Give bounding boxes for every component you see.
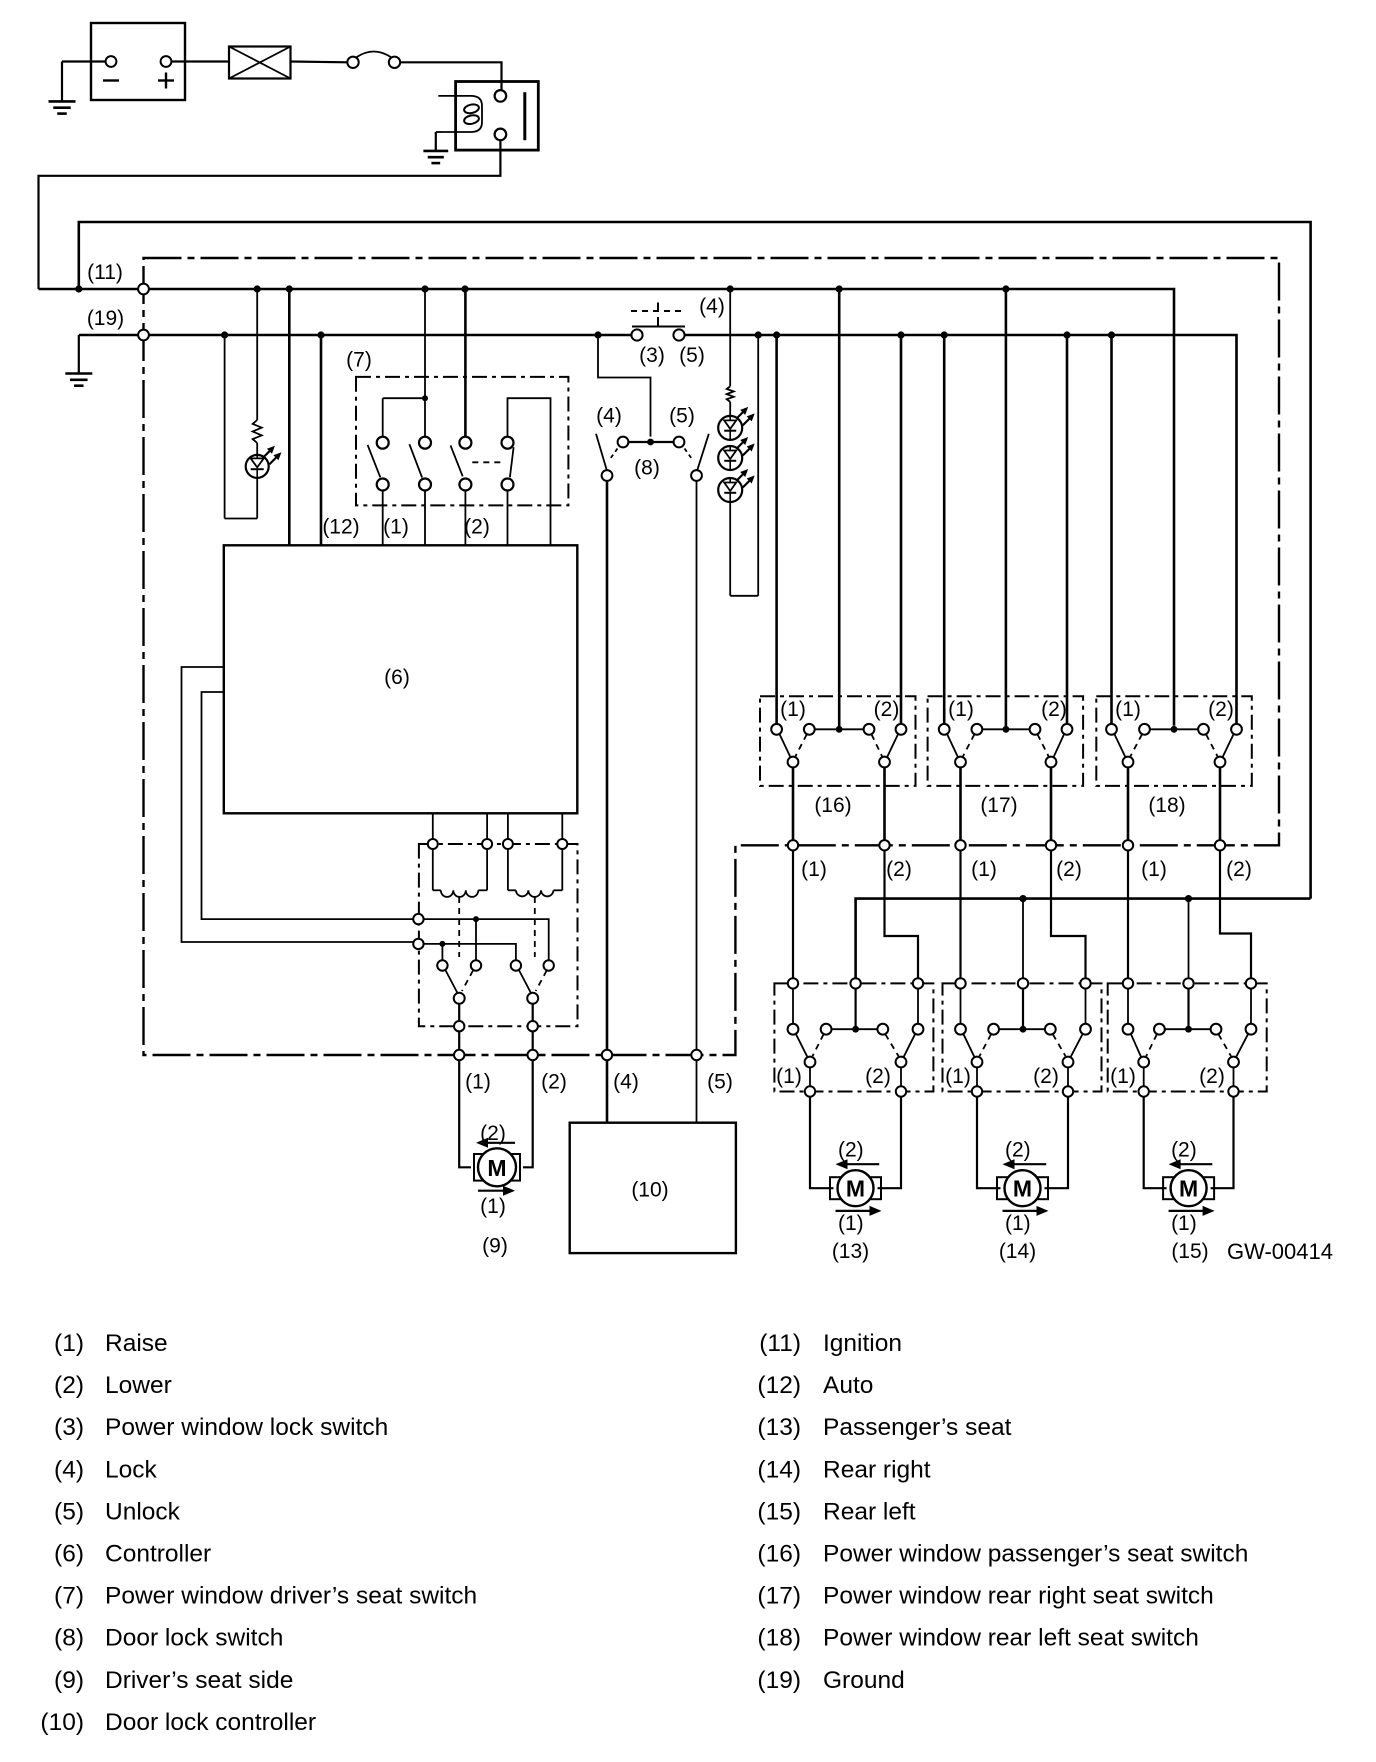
wire lock output (4) xyxy=(606,481,609,1050)
svg-text:(7): (7) xyxy=(346,349,372,372)
svg-text:GW-00414: GW-00414 xyxy=(1227,1239,1333,1264)
wire ignition feed 2 to (7) xyxy=(464,289,467,436)
svg-text:(14): (14) xyxy=(757,1456,801,1483)
svg-text:Controller: Controller xyxy=(105,1541,211,1568)
svg-text:(17): (17) xyxy=(757,1583,801,1610)
svg-text:(2): (2) xyxy=(464,516,490,539)
svg-text:(18): (18) xyxy=(1148,794,1185,817)
svg-text:Rear left: Rear left xyxy=(823,1498,916,1525)
svg-text:Unlock: Unlock xyxy=(105,1498,181,1525)
svg-text:(1): (1) xyxy=(1005,1212,1031,1235)
svg-text:(1): (1) xyxy=(480,1195,506,1218)
motor 13 xyxy=(830,1177,881,1199)
svg-text:(1): (1) xyxy=(776,1065,802,1088)
power window switch box (17) xyxy=(928,696,1084,786)
svg-text:(5): (5) xyxy=(54,1498,84,1525)
relay coil A xyxy=(432,849,434,890)
svg-text:Raise: Raise xyxy=(105,1330,168,1357)
blades xyxy=(1114,734,1125,757)
power window lock switch (3) xyxy=(631,329,642,340)
svg-text:(1): (1) xyxy=(465,1071,491,1094)
relay unit box xyxy=(419,844,578,1026)
svg-text:(15): (15) xyxy=(757,1498,801,1525)
wires door connectors to window switch xyxy=(959,851,961,979)
svg-text:(5): (5) xyxy=(679,344,705,367)
svg-text:M: M xyxy=(487,1155,506,1181)
controller (6) xyxy=(224,545,578,813)
wires ground bus to switch (17) xyxy=(943,335,946,724)
svg-text:Door lock controller: Door lock controller xyxy=(105,1709,316,1736)
bottom connectors xyxy=(805,1086,815,1096)
connector (11) on loop xyxy=(138,284,149,295)
svg-text:(4): (4) xyxy=(699,295,725,318)
svg-text:(4): (4) xyxy=(596,405,622,428)
svg-text:(12): (12) xyxy=(322,516,359,539)
node (11) ignition bus xyxy=(39,289,1175,726)
LED stack (door lock illumination) xyxy=(729,289,731,386)
wire ignition feed to (7) xyxy=(424,289,426,398)
svg-text:(2): (2) xyxy=(865,1065,891,1088)
svg-text:M: M xyxy=(846,1176,865,1202)
internal feeds xyxy=(1127,989,1129,1024)
junction dots on ground bus xyxy=(221,331,228,338)
svg-text:(19): (19) xyxy=(757,1667,801,1694)
relay linkages xyxy=(458,897,460,957)
svg-text:Auto: Auto xyxy=(823,1372,873,1399)
motor (9) driver seat xyxy=(474,1154,520,1181)
junction dots on ignition bus xyxy=(75,285,82,292)
wires controller to relay coils xyxy=(432,813,434,839)
blades xyxy=(796,1034,808,1057)
relay commons xyxy=(454,993,465,1004)
svg-text:Door lock switch: Door lock switch xyxy=(105,1625,283,1652)
wires (7) outputs to controller xyxy=(382,491,384,546)
contacts xyxy=(771,724,782,735)
ignition switch xyxy=(347,57,358,68)
svg-text:Power window driver’s seat swi: Power window driver’s seat switch xyxy=(105,1583,477,1610)
wires door connectors to window switch xyxy=(792,851,794,979)
ground (main) xyxy=(78,335,80,374)
contacts xyxy=(939,724,950,735)
svg-text:(16): (16) xyxy=(814,794,851,817)
svg-text:(2): (2) xyxy=(838,1139,864,1162)
wire raise-contact loop (7) xyxy=(508,398,551,545)
commons xyxy=(1123,757,1134,768)
svg-text:Lower: Lower xyxy=(105,1372,172,1399)
power window switch box (18) xyxy=(1096,696,1252,786)
wire ignition to controller xyxy=(288,289,291,545)
svg-text:(10): (10) xyxy=(631,1179,668,1202)
svg-text:(1): (1) xyxy=(1141,858,1167,881)
wires to motor 15 xyxy=(1144,1097,1167,1189)
svg-text:(1): (1) xyxy=(780,698,806,721)
wire ground to door lock switch xyxy=(598,335,651,437)
svg-text:(16): (16) xyxy=(757,1541,801,1568)
svg-text:Power window rear right seat s: Power window rear right seat switch xyxy=(823,1583,1214,1610)
relay contacts xyxy=(437,960,447,970)
window switch box xyxy=(774,983,933,1091)
svg-text:(2): (2) xyxy=(1056,858,1082,881)
svg-text:(13): (13) xyxy=(757,1414,801,1441)
wires commons to door connectors xyxy=(792,767,795,840)
top connectors xyxy=(955,978,965,988)
svg-text:(8): (8) xyxy=(54,1625,84,1652)
internal feeds xyxy=(960,989,962,1024)
svg-text:(1): (1) xyxy=(1171,1212,1197,1235)
svg-text:(13): (13) xyxy=(832,1240,869,1263)
ground (relay) xyxy=(436,131,444,133)
door lock controller (10) xyxy=(570,1123,736,1253)
svg-text:(3): (3) xyxy=(54,1414,84,1441)
svg-text:Power window rear left seat sw: Power window rear left seat switch xyxy=(823,1625,1199,1652)
svg-text:(12): (12) xyxy=(757,1372,801,1399)
svg-text:(17): (17) xyxy=(980,794,1017,817)
power window driver seat switch (7) xyxy=(356,377,568,506)
wire main feed (battery to window switches) xyxy=(79,222,1311,899)
svg-text:Ignition: Ignition xyxy=(823,1330,902,1357)
switch contacts (7) xyxy=(377,437,389,449)
blades xyxy=(1131,1034,1141,1057)
connector (19) on loop xyxy=(138,330,149,341)
svg-text:(15): (15) xyxy=(1171,1240,1208,1263)
svg-text:(10): (10) xyxy=(40,1709,84,1736)
svg-text:(3): (3) xyxy=(639,344,665,367)
svg-text:(2): (2) xyxy=(1005,1139,1031,1162)
switch blades (7) xyxy=(368,445,381,477)
wires to motor 14 xyxy=(977,1097,1001,1189)
wires commons to door connectors xyxy=(1127,767,1130,840)
wires ground bus to switch (18) xyxy=(1110,335,1113,724)
svg-text:M: M xyxy=(1013,1176,1032,1202)
connectors on harness loop (passenger/rear doors) xyxy=(788,840,798,850)
controller feedback wires xyxy=(182,667,415,942)
svg-text:(2): (2) xyxy=(54,1372,84,1399)
contacts xyxy=(788,1024,799,1035)
window switch box xyxy=(1108,983,1267,1091)
svg-text:(1): (1) xyxy=(945,1065,971,1088)
svg-text:(19): (19) xyxy=(87,307,124,330)
svg-text:(1): (1) xyxy=(383,516,409,539)
svg-text:(18): (18) xyxy=(757,1625,801,1652)
blades xyxy=(779,734,790,757)
svg-text:Rear right: Rear right xyxy=(823,1456,931,1483)
svg-text:(1): (1) xyxy=(801,858,827,881)
wire ignition bus to switch (17) xyxy=(1005,289,1008,726)
wire ground to controller xyxy=(320,335,323,545)
connectors on harness loop (driver door) xyxy=(454,1050,464,1060)
svg-text:(4): (4) xyxy=(613,1071,639,1094)
battery xyxy=(91,23,185,100)
relay coil connectors xyxy=(428,839,438,849)
bottom connectors xyxy=(972,1086,982,1096)
wire battery to fuse xyxy=(171,60,229,62)
svg-text:Lock: Lock xyxy=(105,1456,158,1483)
svg-text:(2): (2) xyxy=(541,1071,567,1094)
svg-text:(2): (2) xyxy=(1041,698,1067,721)
svg-text:(2): (2) xyxy=(874,698,900,721)
motor 15 xyxy=(1163,1177,1214,1199)
svg-text:(1): (1) xyxy=(838,1212,864,1235)
internal feeds xyxy=(792,989,794,1024)
blades xyxy=(947,734,958,757)
svg-text:(9): (9) xyxy=(54,1667,84,1694)
wires commons to door connectors xyxy=(959,767,962,840)
blades xyxy=(963,1034,974,1057)
svg-text:(11): (11) xyxy=(759,1330,801,1357)
svg-text:(1): (1) xyxy=(54,1330,84,1357)
svg-text:(14): (14) xyxy=(999,1240,1036,1263)
svg-text:(4): (4) xyxy=(54,1456,84,1483)
bottom connectors xyxy=(1139,1086,1149,1096)
fuse xyxy=(229,47,291,79)
top connectors xyxy=(788,978,798,988)
svg-text:(6): (6) xyxy=(54,1541,84,1568)
svg-text:(6): (6) xyxy=(384,666,410,689)
svg-text:(1): (1) xyxy=(1110,1065,1136,1088)
door lock switch (8) xyxy=(628,441,673,443)
power window switch box (16) xyxy=(760,696,916,786)
svg-text:(1): (1) xyxy=(1115,698,1141,721)
svg-text:(2): (2) xyxy=(480,1122,506,1145)
wires door connectors to window switch xyxy=(1127,851,1129,979)
motor 14 xyxy=(997,1177,1048,1199)
contacts xyxy=(1123,1024,1134,1035)
svg-text:(2): (2) xyxy=(1199,1065,1225,1088)
wires to door lock controller xyxy=(606,1060,609,1123)
contacts xyxy=(1106,724,1117,735)
wires relay outputs xyxy=(458,1031,460,1049)
harness loop (door connectors) xyxy=(144,258,1280,1055)
wire ignition bus to switch (16) xyxy=(838,289,841,726)
ground (battery) xyxy=(62,60,106,62)
svg-text:(2): (2) xyxy=(1171,1139,1197,1162)
svg-text:(1): (1) xyxy=(971,858,997,881)
commons xyxy=(955,757,966,768)
svg-text:(5): (5) xyxy=(707,1071,733,1094)
svg-text:(9): (9) xyxy=(482,1235,508,1258)
wire fuse to switch xyxy=(291,60,348,63)
svg-text:(2): (2) xyxy=(1226,858,1252,881)
relay coil B xyxy=(507,849,509,890)
relay contact wires xyxy=(424,919,549,960)
svg-text:(2): (2) xyxy=(886,858,912,881)
commons xyxy=(972,1057,983,1068)
wire power distribution to lower switches xyxy=(856,899,1311,978)
svg-text:Ground: Ground xyxy=(823,1667,905,1694)
wire switch to relay xyxy=(400,62,501,89)
svg-text:(8): (8) xyxy=(634,457,660,480)
relay xyxy=(456,82,539,151)
relay input connectors xyxy=(413,914,423,924)
relay blades xyxy=(445,970,457,993)
svg-text:(5): (5) xyxy=(669,405,695,428)
commons xyxy=(788,757,799,768)
contacts xyxy=(955,1024,966,1035)
svg-text:(2): (2) xyxy=(1208,698,1234,721)
svg-text:(11): (11) xyxy=(87,261,123,284)
wire unlock output (5) xyxy=(696,481,698,1050)
wires to motor 13 xyxy=(810,1097,834,1189)
svg-text:(7): (7) xyxy=(54,1583,84,1610)
svg-text:Power window lock switch: Power window lock switch xyxy=(105,1414,388,1441)
svg-text:M: M xyxy=(1179,1176,1198,1202)
wires to driver motor xyxy=(459,1060,471,1167)
commons xyxy=(1138,1057,1149,1068)
svg-text:(2): (2) xyxy=(1033,1065,1059,1088)
node (19) ground bus xyxy=(79,334,632,337)
svg-text:(1): (1) xyxy=(948,698,974,721)
window switch box xyxy=(943,983,1102,1091)
svg-text:Driver’s seat side: Driver’s seat side xyxy=(105,1667,293,1694)
commons xyxy=(805,1057,816,1068)
top connectors xyxy=(1123,978,1133,988)
relay coil xyxy=(438,96,482,132)
wire relay output to ignition bus xyxy=(39,140,501,289)
wires ground bus to switch (16) xyxy=(775,335,778,724)
svg-text:Power window passenger’s seat: Power window passenger’s seat switch xyxy=(823,1541,1248,1568)
LED indicator (auto) xyxy=(256,289,258,420)
svg-text:Passenger’s seat: Passenger’s seat xyxy=(823,1414,1012,1441)
